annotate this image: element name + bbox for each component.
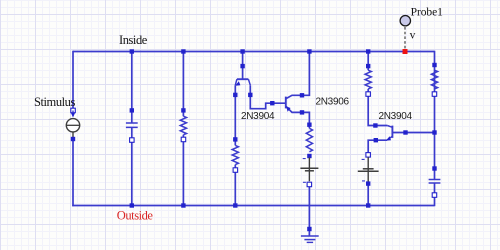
wire capacitor C2 to Outside rail: [434, 183, 436, 206]
wire right branch: [434, 51, 436, 180]
resistor R4: [365, 70, 371, 89]
battery V1: [308, 157, 310, 181]
junction squares on Outside rail: [130, 203, 134, 207]
wire Q2 collector to Inside rail: [286, 52, 310, 99]
current source Stimulus body: [66, 119, 79, 132]
current source Stimulus terminal: [71, 108, 76, 113]
junction squares on Inside rail: [130, 49, 134, 53]
svg-text:Stimulus: Stimulus: [34, 95, 75, 109]
ground: [301, 235, 319, 237]
svg-text:2N3906: 2N3906: [316, 97, 350, 108]
wire Inside rail: [73, 51, 435, 53]
battery V2: [367, 157, 369, 182]
wire Q2 emitter down: [286, 106, 310, 128]
svg-text:Inside: Inside: [119, 33, 148, 47]
current source Stimulus arrow: [72, 111, 74, 113]
wire capacitor C1 branch bottom: [131, 127, 133, 205]
svg-text:v: v: [410, 30, 416, 42]
wire Q1 emitter leg: [234, 85, 236, 145]
wire stimulus branch bottom: [72, 139, 74, 206]
wire Q3 emitter down: [368, 140, 387, 157]
wire capacitor C1 branch top: [131, 52, 133, 124]
resistor R1: [180, 116, 186, 135]
transistor Q3 2N3904: [391, 126, 393, 138]
probe Probe1 attachment point (red): [403, 49, 408, 54]
wire Outside rail: [72, 205, 434, 207]
wire battery V2 to Outside rail: [367, 183, 369, 206]
svg-text:2N3904: 2N3904: [241, 111, 275, 122]
wire transistor Q1 base feed: [242, 52, 244, 80]
current source Stimulus bottom pin junction: [71, 137, 75, 141]
wire Q3 base to right branch: [392, 132, 434, 134]
wire resistor R1 branch top: [182, 52, 184, 117]
svg-text:Probe1: Probe1: [411, 6, 444, 18]
wire resistor R1 branch bottom: [182, 135, 184, 206]
wire Q1 collector to Q2 base: [250, 85, 285, 109]
capacitor C2: [429, 180, 441, 184]
resistor R5: [431, 70, 437, 89]
probe Probe1 dashed lead: [404, 27, 406, 49]
transistor Q1 2N3904: [237, 78, 249, 80]
capacitor C1: [126, 123, 138, 127]
svg-text:2N3904: 2N3904: [379, 111, 413, 122]
probe Probe1 body: [400, 16, 410, 26]
svg-text:Outside: Outside: [117, 208, 154, 222]
wire resistor R4 branch top: [367, 52, 369, 71]
wire R4 to Q3 collector: [368, 89, 387, 126]
wire Q1 leg to Outside rail: [234, 165, 236, 206]
wire stimulus branch top: [72, 51, 74, 111]
resistor R2 below Q1: [232, 145, 238, 164]
resistor R3 below Q2: [306, 128, 312, 152]
transistor Q2 2N3906: [285, 97, 287, 109]
wire battery V1 to ground: [308, 183, 310, 236]
